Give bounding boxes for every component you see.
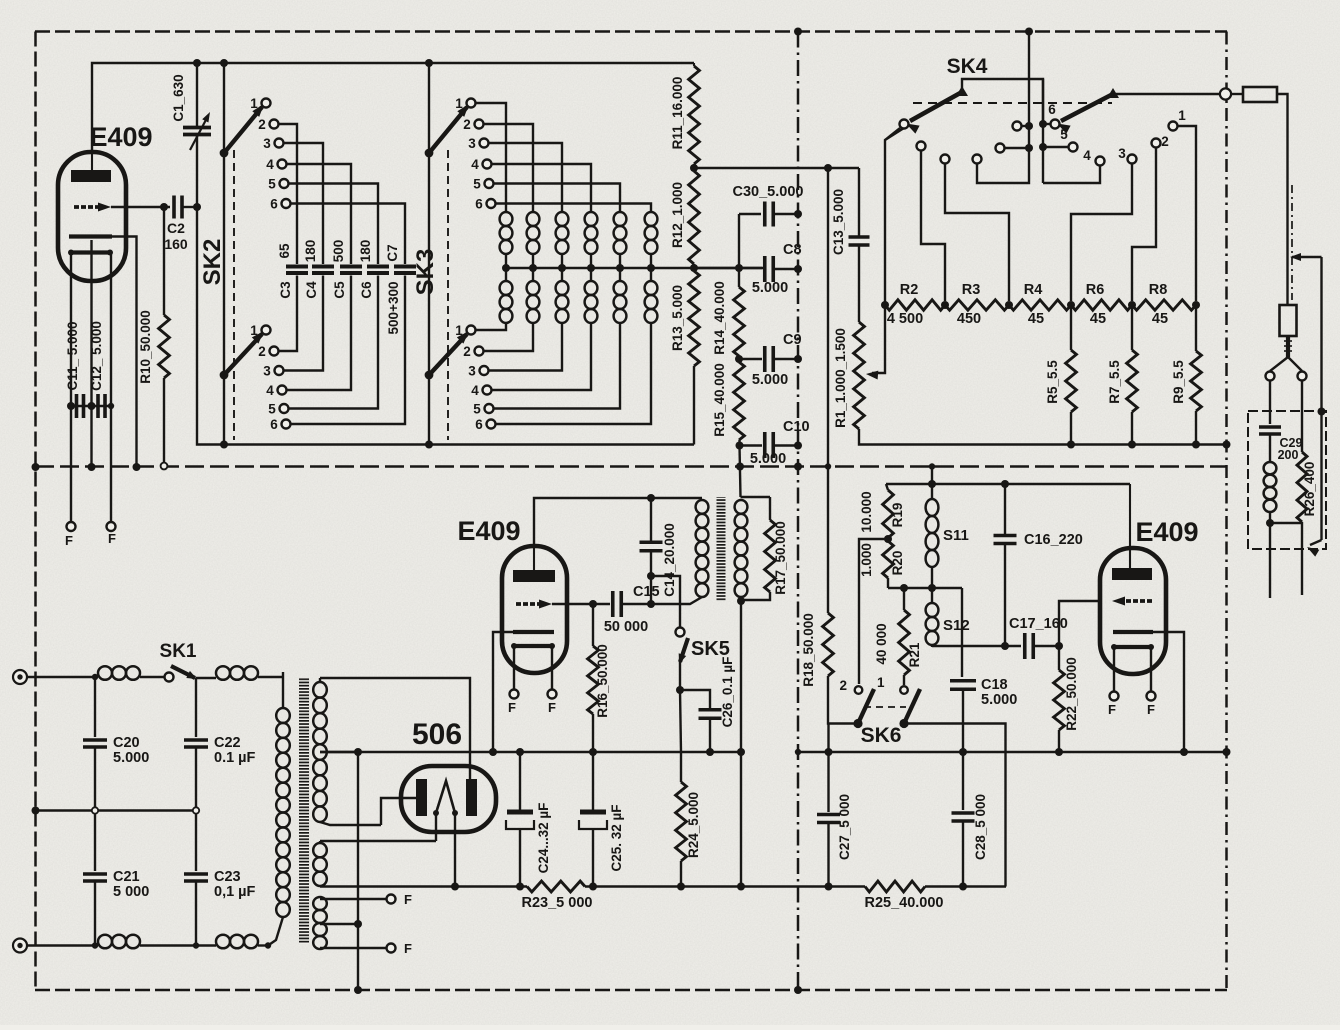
- capacitor C17: [1025, 633, 1034, 659]
- wire R18 line to C27: [827, 724, 829, 813]
- label SK6: [861, 724, 902, 747]
- wire R18 to SK6 arm1: [828, 676, 858, 724]
- capacitor C23: [184, 811, 208, 946]
- SK6 contact circle 2: [839, 675, 885, 694]
- terminal mains top: [13, 670, 27, 684]
- label C16: [1024, 532, 1083, 548]
- svg-text:C16_220: C16_220: [1024, 532, 1083, 548]
- junction R2/R3: [941, 301, 949, 309]
- SK2 wafer2 arm: [220, 331, 264, 379]
- wire 506 filament left: [435, 813, 437, 841]
- svg-text:4: 4: [266, 157, 274, 172]
- svg-text:R12_1.000: R12_1.000: [670, 182, 685, 248]
- wire HT top to 506 anode: [320, 678, 470, 781]
- wire SK5 to C26/R24: [676, 662, 684, 782]
- terminal earth mid C20: [92, 807, 98, 813]
- HT centre tap: [320, 751, 358, 753]
- svg-text:R22_50.000: R22_50.000: [1064, 657, 1079, 731]
- svg-text:4: 4: [1083, 148, 1091, 163]
- svg-text:C8: C8: [783, 242, 802, 258]
- svg-text:F: F: [548, 700, 556, 715]
- SK2 top wafer contact wires: [278, 124, 405, 264]
- svg-text:1: 1: [877, 675, 885, 690]
- svg-text:1.000: 1.000: [859, 543, 874, 577]
- junction cathode centre/divider: [88, 463, 96, 471]
- terminal aerial circle on border: [1220, 88, 1231, 99]
- wire R13 bottom to rail: [693, 366, 695, 445]
- cable below fuse: [1284, 336, 1292, 357]
- label R18: [801, 613, 816, 687]
- terminal F filament right: [107, 522, 117, 546]
- svg-text:5.000: 5.000: [750, 451, 786, 467]
- svg-text:R11_16.000: R11_16.000: [670, 77, 685, 150]
- wire R20 bottom node: [888, 587, 962, 589]
- label C9: [752, 332, 802, 388]
- wire speaker exit left: [1269, 523, 1271, 598]
- speaker coil: [1264, 434, 1277, 523]
- wire mains bottom: [27, 944, 98, 946]
- label E409 V1: [89, 122, 152, 152]
- svg-text:6: 6: [270, 417, 278, 432]
- label C11: [65, 321, 80, 390]
- SK2 bottom wafer contacts 1-6: [250, 323, 290, 432]
- svg-text:C23: C23: [214, 869, 241, 885]
- SK4 arm 2: [1057, 88, 1119, 134]
- label C21: [113, 869, 149, 900]
- svg-text:5: 5: [268, 177, 276, 192]
- capacitor C11: [67, 394, 96, 418]
- SK2 wafer1 arm: [220, 104, 264, 157]
- wire speaker exit right: [1301, 527, 1303, 595]
- tube V1 E409 envelope: [58, 152, 126, 281]
- junction R22/cathode rail: [1055, 748, 1063, 756]
- SK3 bottom wafer contact wires: [475, 323, 651, 424]
- SK4 contact circle c: [941, 155, 1010, 302]
- junction R4/R6: [1067, 301, 1075, 309]
- resistor R22 50.000: [1054, 646, 1065, 752]
- svg-text:5: 5: [473, 402, 481, 417]
- junction C16 top: [1001, 480, 1009, 488]
- wire SK1 pivot to coil2: [196, 677, 216, 679]
- resistor R15 40.000: [734, 356, 745, 440]
- SK6 arm2: [899, 689, 920, 728]
- SK4 mechanical link dashed: [913, 102, 1112, 104]
- tube V2 grid wire: [552, 603, 610, 605]
- capacitor C2: [174, 196, 182, 219]
- SK4 contact circle f: [1013, 122, 1034, 131]
- junction divider/vertical divider: [794, 463, 802, 471]
- junction V3 cathode/rail: [1180, 748, 1188, 756]
- SK4 contact circle a: [900, 120, 909, 129]
- junction C18/right rail: [959, 748, 967, 756]
- SK2 boundary dashed: [233, 150, 235, 440]
- label S12: [943, 617, 970, 634]
- border left dashed: [34, 32, 37, 991]
- svg-text:R26_400: R26_400: [1302, 462, 1317, 517]
- wire AF plate rail: [886, 483, 1130, 485]
- tube filament winding: [313, 897, 327, 949]
- mains transformer core: [299, 678, 309, 944]
- label C30: [733, 184, 804, 200]
- label E409 V2: [457, 516, 520, 546]
- svg-text:C7: C7: [385, 244, 400, 261]
- label R21 value: [874, 623, 889, 664]
- junction top border/SK4 line: [1025, 28, 1033, 36]
- svg-text:5: 5: [268, 402, 276, 417]
- junction SK5 tap: [647, 572, 655, 580]
- speaker plug contact right: [1298, 372, 1307, 381]
- mains filter coil 4: [216, 935, 258, 949]
- svg-text:R13_5.000: R13_5.000: [670, 285, 685, 351]
- junction R21 top: [900, 584, 908, 592]
- SK2 top wafer contacts 1-6: [250, 96, 290, 212]
- svg-text:2: 2: [258, 117, 266, 132]
- svg-text:R21: R21: [907, 642, 922, 667]
- svg-text:1: 1: [1178, 108, 1186, 123]
- SK4 arm 2 wire to aerial: [1113, 93, 1220, 95]
- svg-text:2: 2: [463, 344, 471, 359]
- svg-text:R6: R6: [1086, 282, 1105, 298]
- label R24: [686, 792, 701, 858]
- ground line centre tap: [357, 752, 359, 990]
- junction C25 bottom: [589, 883, 597, 891]
- junction bus/R14: [735, 264, 743, 272]
- wire speaker bottom link: [1270, 522, 1302, 527]
- tube V3 E409 envelope: [1100, 548, 1166, 674]
- terminal F transformer 1: [387, 892, 413, 907]
- svg-text:S12: S12: [943, 617, 970, 634]
- resistor R14 40.000: [734, 287, 745, 356]
- label R10: [138, 310, 153, 384]
- svg-text:C2: C2: [167, 220, 185, 236]
- resistor R16 50.000: [588, 604, 599, 752]
- wire SK1 to C22: [195, 678, 197, 737]
- wire R1 wiper: [866, 128, 904, 380]
- resistor R10 50.000: [159, 315, 170, 378]
- svg-text:F: F: [404, 941, 412, 956]
- junction top border/vertical divider: [794, 28, 802, 36]
- svg-text:500: 500: [331, 240, 346, 263]
- junction C20 top: [92, 674, 98, 680]
- wire switch bottom rail y=444.5: [224, 443, 694, 445]
- wire rect fil top: [320, 840, 436, 842]
- wire plate feed y=168: [694, 167, 859, 169]
- SK4 contact circle b: [917, 142, 946, 302]
- wire plate feed corner to C13: [858, 168, 860, 237]
- svg-text:SK3: SK3: [412, 249, 439, 296]
- junction R12/R13 bus: [690, 264, 698, 272]
- junction SK2 rail: [220, 441, 228, 449]
- junction R24/B+ rail: [677, 883, 685, 891]
- label C25: [609, 804, 624, 871]
- wire C1 to SK2 rail: [197, 136, 224, 445]
- mains filter coil 2: [216, 666, 258, 680]
- svg-text:2: 2: [463, 117, 471, 132]
- wire coil middle bus y=268: [502, 254, 763, 281]
- label R1: [833, 328, 848, 428]
- tube V2 filament bar: [511, 643, 555, 649]
- svg-text:C11_ 5.000: C11_ 5.000: [65, 321, 80, 390]
- tube V1 cathode centre wire to chassis: [90, 240, 92, 467]
- SK3 bottom wafer contacts 1-6: [455, 323, 495, 432]
- tube V3 filament bar: [1111, 644, 1154, 650]
- svg-text:R15_40.000: R15_40.000: [712, 363, 727, 437]
- svg-text:2: 2: [258, 344, 266, 359]
- tube V2 E409 envelope: [502, 546, 567, 673]
- svg-text:4: 4: [266, 383, 274, 398]
- labels C3-C7 values: [277, 240, 401, 335]
- svg-text:SK4: SK4: [947, 55, 988, 78]
- svg-text:R9_5.5: R9_5.5: [1171, 360, 1186, 404]
- wire C30 branch: [738, 214, 740, 287]
- capacitor C12: [98, 394, 114, 418]
- label C27: [837, 794, 852, 860]
- junction C14/C15/primary: [647, 600, 655, 608]
- wire right cathode rail: [798, 751, 1227, 753]
- svg-text:5 000: 5 000: [113, 884, 149, 900]
- label R14: [712, 281, 727, 355]
- svg-text:E409: E409: [1135, 517, 1198, 547]
- junction secondary bottom/B+ rail: [737, 883, 745, 891]
- wire fil F1: [320, 898, 387, 900]
- label C17: [1009, 616, 1068, 632]
- wire attenuator bottom rail: [859, 429, 1227, 445]
- tube V1 filament bar: [68, 250, 113, 256]
- svg-text:450: 450: [957, 311, 981, 327]
- label C14: [662, 523, 677, 597]
- svg-text:R4: R4: [1024, 282, 1043, 298]
- SK5 contact circle: [676, 628, 685, 637]
- svg-text:4 500: 4 500: [887, 311, 923, 327]
- label SK2: [199, 239, 226, 286]
- wire R15 to IF secondary: [740, 440, 741, 497]
- mains filter coil 3: [98, 935, 140, 949]
- wire grid node to V3: [1059, 601, 1100, 646]
- svg-text:0.1 µF: 0.1 µF: [214, 750, 256, 766]
- label C28: [973, 794, 988, 860]
- section divider vertical dash-dot x=798: [797, 32, 800, 991]
- svg-text:F: F: [65, 533, 73, 548]
- terminal F transformer 2: [387, 941, 413, 956]
- svg-text:0,1 µF: 0,1 µF: [214, 884, 256, 900]
- wire secondary top to R17: [741, 496, 771, 498]
- junction AVC line: [824, 164, 832, 172]
- svg-text:R19: R19: [890, 503, 905, 528]
- SK4 contact circle 4: [1043, 148, 1105, 183]
- svg-text:C4: C4: [304, 281, 319, 299]
- svg-text:R25_40.000: R25_40.000: [864, 895, 943, 911]
- junction C21 bottom: [92, 942, 98, 948]
- svg-text:F: F: [1108, 702, 1116, 717]
- svg-text:45: 45: [1028, 311, 1044, 327]
- SK1 contact circle: [165, 673, 174, 682]
- label C20: [113, 735, 149, 766]
- label SK3: [412, 249, 439, 296]
- resistor R23 5.000: [527, 881, 585, 892]
- terminal earth mid C22: [193, 807, 199, 813]
- border top dashed: [35, 30, 1227, 33]
- junction R14/R15 C9 node: [735, 355, 743, 363]
- wire C11/C12 row: [71, 405, 111, 407]
- svg-text:C14_20.000: C14_20.000: [662, 523, 677, 597]
- tube V3 anode plate: [1112, 484, 1152, 580]
- resistor R5 5.5: [1066, 305, 1077, 445]
- label SK5: [691, 638, 730, 660]
- resistor R19 10.000: [883, 484, 894, 538]
- svg-text:R1_1.000_1.500: R1_1.000_1.500: [833, 328, 848, 428]
- svg-text:506: 506: [412, 718, 462, 751]
- SK3 boundary dashed: [447, 150, 449, 440]
- svg-text:1: 1: [250, 323, 258, 338]
- label R11: [670, 77, 685, 150]
- svg-text:C25. 32 µF: C25. 32 µF: [609, 804, 624, 871]
- svg-text:5.000: 5.000: [752, 280, 788, 296]
- svg-text:R24_5.000: R24_5.000: [686, 792, 701, 858]
- mains transformer primary: [268, 672, 290, 946]
- resistor R17 50.000: [741, 497, 775, 600]
- label R21: [907, 642, 922, 667]
- tube V3 filament wires: [1114, 647, 1151, 692]
- svg-text:6: 6: [270, 197, 278, 212]
- capacitor C26: [699, 710, 722, 752]
- SK6 mechanical link dashed: [864, 706, 906, 708]
- terminal F V3 right: [1147, 692, 1156, 718]
- junction V2 cathode/rail: [489, 748, 497, 756]
- mains filter coil 1: [98, 666, 140, 680]
- SK2 bottom wafer contact wires: [278, 276, 405, 425]
- svg-text:3: 3: [468, 136, 476, 151]
- junction secondary bottom: [737, 597, 745, 605]
- junction C9/chassis line: [794, 355, 802, 363]
- SK3 top wafer contacts 1-6: [455, 96, 495, 212]
- svg-text:5: 5: [473, 177, 481, 192]
- tube V3 cathode bar: [1113, 630, 1153, 634]
- border right dash-dot: [1225, 32, 1228, 991]
- svg-text:R14_40.000: R14_40.000: [712, 281, 727, 355]
- resistor R6 45: [1071, 282, 1132, 327]
- junction bottom border/ground line: [354, 986, 362, 994]
- tube 506 anode left: [416, 779, 427, 816]
- svg-text:R3: R3: [962, 282, 981, 298]
- label C10: [750, 419, 810, 467]
- junction SK3 line: [425, 59, 433, 67]
- junction V2 grid node: [589, 600, 597, 608]
- svg-text:5.000: 5.000: [113, 750, 149, 766]
- junction R2 left: [881, 301, 889, 309]
- tube V1 cathode bar: [69, 234, 112, 238]
- choke S12: [926, 588, 939, 647]
- junction R11/R12: [690, 164, 698, 172]
- wire B+ rail: [320, 885, 1006, 887]
- RF coils lower row: [500, 281, 658, 323]
- svg-text:R7_5.5: R7_5.5: [1107, 360, 1122, 404]
- junction HT centre tap ground: [354, 748, 362, 756]
- junction C8/chassis line: [794, 265, 802, 273]
- label R26: [1302, 462, 1317, 517]
- junction R6/R8: [1128, 301, 1136, 309]
- label C24: [536, 803, 551, 874]
- terminal F V2 left: [508, 690, 518, 716]
- wire C26 branch: [680, 690, 710, 709]
- tube V1 cathode hook wire: [112, 237, 137, 468]
- capacitor C14: [640, 498, 663, 604]
- label 506: [412, 718, 462, 751]
- label E409 V3: [1135, 517, 1198, 547]
- svg-text:SK2: SK2: [199, 239, 226, 286]
- svg-text:R17_50.000: R17_50.000: [773, 521, 788, 595]
- IF transformer secondary: [735, 500, 748, 600]
- svg-text:C28_5 000: C28_5 000: [973, 794, 988, 860]
- svg-text:50 000: 50 000: [604, 619, 648, 635]
- wire coil4 to transformer: [258, 942, 271, 948]
- SK4 contact circle 3: [1071, 146, 1137, 301]
- tube V2 cathode hook: [493, 632, 513, 752]
- capacitor C25 electrolytic: [579, 752, 607, 887]
- svg-text:R8: R8: [1149, 282, 1168, 298]
- capacitor C15: [613, 591, 622, 617]
- chassis divider horizontal dashed: [35, 465, 1227, 468]
- junction C28 bottom: [959, 883, 967, 891]
- IF transformer primary: [651, 500, 708, 604]
- resistor R2 4500: [885, 282, 945, 327]
- wire R18 branch: [827, 612, 829, 614]
- label R9: [1171, 360, 1186, 404]
- wire secondary bottom down: [740, 601, 742, 887]
- potentiometer R1 1.000-1.500: [854, 322, 865, 429]
- label C29: [1278, 436, 1303, 462]
- rectifier filament winding: [313, 841, 327, 886]
- resistor R12 1.000: [689, 164, 700, 268]
- wire C2 to C1-line: [182, 206, 197, 208]
- junction SK2 line: [220, 59, 228, 67]
- capacitor C18: [950, 588, 976, 752]
- wire output transformer line: [1307, 257, 1322, 557]
- IF transformer core: [717, 497, 726, 601]
- svg-text:R20: R20: [890, 551, 905, 576]
- capacitor C10: [765, 432, 798, 458]
- SK3 wafer2 arm: [425, 331, 469, 379]
- svg-text:4: 4: [471, 383, 479, 398]
- svg-text:C3: C3: [278, 281, 293, 299]
- terminal R10/divider open circle: [161, 463, 168, 470]
- junction R15/C10 node: [736, 442, 744, 450]
- junction earth/border: [32, 807, 40, 815]
- junction C24 bottom: [516, 883, 524, 891]
- resistor R3 450: [945, 282, 1009, 327]
- wire C1 line upper: [196, 63, 198, 126]
- svg-text:C21: C21: [113, 869, 140, 885]
- wire C15 to C14 node: [621, 603, 651, 605]
- label SK1: [160, 641, 197, 662]
- label R16: [595, 644, 610, 718]
- SK4 arm 1 riser: [962, 79, 1043, 124]
- svg-text:6: 6: [475, 197, 483, 212]
- svg-text:R5_5.5: R5_5.5: [1045, 360, 1060, 404]
- aerial lead dash-dot: [1291, 185, 1293, 300]
- wire plug right to R26: [1301, 380, 1303, 452]
- tube V2 anode plate: [513, 546, 555, 582]
- svg-text:4: 4: [471, 157, 479, 172]
- label C22: [214, 735, 256, 766]
- wire SK2 pivot line: [223, 63, 225, 445]
- wire fil F2: [320, 947, 387, 949]
- wire C17 to grid node: [1033, 645, 1059, 647]
- resistor R9 5.5: [1191, 305, 1202, 445]
- svg-text:C22: C22: [214, 735, 241, 751]
- label C26: [720, 657, 735, 728]
- speaker plug fork: [1270, 357, 1302, 371]
- junction R5 bottom: [1067, 441, 1075, 449]
